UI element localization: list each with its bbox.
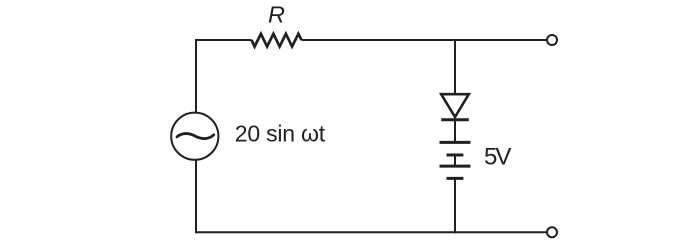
svg-text:5V: 5V	[484, 144, 511, 171]
svg-text:R: R	[268, 2, 285, 28]
svg-text:20 sin ωt: 20 sin ωt	[235, 120, 326, 146]
